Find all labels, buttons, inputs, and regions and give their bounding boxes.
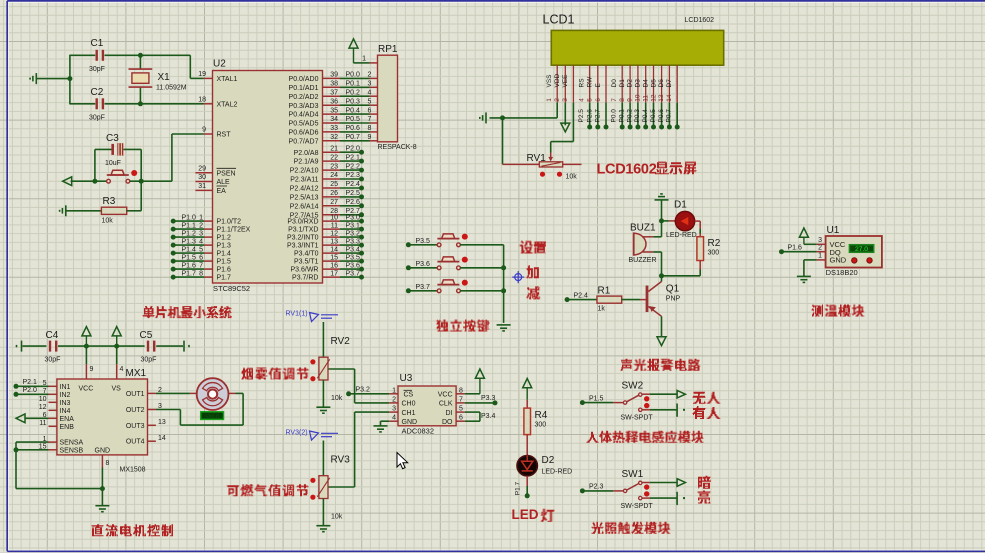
SENSA SENSB wires [16, 441, 49, 443]
svg-text:RV1: RV1 [527, 153, 547, 164]
svg-text:8: 8 [106, 460, 110, 467]
svg-text:VCC: VCC [438, 392, 453, 399]
MX1 VCC pin [85, 346, 87, 364]
svg-text:12: 12 [330, 230, 338, 237]
svg-text:IN1: IN1 [60, 384, 71, 391]
svg-text:P3.5: P3.5 [346, 254, 361, 261]
buzzer BUZ1 [634, 233, 646, 255]
label zhi-liu-dian-ji [91, 524, 104, 536]
wire [460, 267, 504, 269]
label sheng-guang-bao-jing [620, 359, 632, 371]
svg-text:9: 9 [202, 127, 206, 134]
resistor pack RP1 body [378, 55, 398, 142]
svg-text:9: 9 [90, 366, 94, 373]
svg-text:RV2: RV2 [331, 336, 351, 347]
svg-text:EA: EA [217, 188, 227, 195]
svg-text:11: 11 [642, 95, 649, 102]
svg-text:LED-RED: LED-RED [542, 469, 573, 476]
svg-text:X1: X1 [158, 72, 171, 83]
resistor R2 [697, 237, 704, 261]
svg-text:P2.0/A8: P2.0/A8 [294, 150, 319, 157]
svg-text:31: 31 [198, 183, 206, 190]
svg-text:VCC: VCC [79, 386, 94, 393]
svg-text:SW-SPDT: SW-SPDT [621, 503, 654, 510]
svg-text:21: 21 [330, 145, 338, 152]
svg-text:CH0: CH0 [402, 401, 416, 408]
svg-text:11.0592M: 11.0592M [156, 85, 187, 92]
capacitor C2 [96, 98, 98, 109]
LCD pin stubs [556, 65, 558, 102]
LCD VEE wire to RV1 wiper [572, 103, 574, 142]
RV1 terminal dots [540, 172, 545, 177]
ENA terminal arrow [16, 414, 25, 423]
LCD VSS wire to ground [556, 103, 558, 118]
svg-text:OUT2: OUT2 [126, 407, 145, 414]
svg-text:P3.1: P3.1 [346, 222, 361, 229]
origin marker [512, 271, 524, 283]
svg-text:2: 2 [554, 98, 561, 102]
svg-text:C1: C1 [91, 38, 104, 49]
svg-text:R4: R4 [535, 410, 548, 421]
svg-text:P0.1: P0.1 [346, 81, 361, 88]
ground [316, 526, 330, 532]
svg-text:P3.7/RD: P3.7/RD [292, 275, 318, 282]
svg-text:7: 7 [199, 263, 203, 270]
ground [797, 276, 811, 282]
svg-text:10k: 10k [331, 395, 343, 402]
ground left of crystal [30, 73, 36, 84]
svg-text:8: 8 [619, 98, 626, 102]
wire [117, 345, 145, 347]
svg-text:P3.3: P3.3 [346, 238, 361, 245]
svg-text:P0.6: P0.6 [346, 125, 361, 132]
svg-text:P3.6: P3.6 [416, 261, 431, 268]
ground [374, 426, 388, 432]
wire [699, 221, 701, 229]
svg-text:P0.0: P0.0 [346, 72, 361, 79]
svg-text:P0.7: P0.7 [666, 109, 673, 123]
svg-text:LCD1602: LCD1602 [597, 162, 657, 178]
svg-text:U2: U2 [213, 59, 226, 70]
svg-text:P2.4/A12: P2.4/A12 [290, 186, 319, 193]
svg-text:32: 32 [330, 134, 338, 141]
svg-text:VEE: VEE [562, 74, 569, 88]
svg-text:P2.1: P2.1 [346, 154, 361, 161]
wire [70, 103, 95, 105]
svg-text:P3.2/INT0: P3.2/INT0 [287, 235, 319, 242]
svg-text:U3: U3 [400, 373, 413, 384]
push button reset [111, 170, 124, 175]
wire [127, 210, 142, 212]
svg-text:P0.4: P0.4 [642, 109, 649, 123]
svg-text:P0.2: P0.2 [626, 109, 633, 123]
U3 GND to ground [381, 420, 390, 422]
wire to XTAL2 [105, 103, 204, 105]
wire RV2 wiper to CH0 [355, 402, 390, 404]
svg-text:P2.6/A14: P2.6/A14 [290, 203, 319, 210]
svg-text:P3.0/RXD: P3.0/RXD [287, 219, 318, 226]
svg-text:10: 10 [635, 94, 642, 102]
U3 left pin stubs [389, 393, 398, 395]
wire [622, 299, 640, 301]
svg-text:P2.1/A9: P2.1/A9 [294, 159, 319, 166]
svg-text:E: E [595, 83, 602, 88]
svg-text:BUZZER: BUZZER [629, 257, 657, 264]
MX1 left pins [49, 385, 57, 387]
svg-text:ADC0832: ADC0832 [402, 426, 435, 435]
U3 CLK wire and label P3.3 [465, 402, 495, 404]
svg-text:P1.3: P1.3 [182, 239, 197, 246]
svg-text:RV1(1): RV1(1) [286, 311, 308, 318]
svg-text:GND: GND [95, 448, 111, 455]
wire [526, 400, 528, 408]
svg-text:CS: CS [404, 392, 414, 399]
svg-text:IN2: IN2 [60, 392, 71, 399]
svg-text:10k: 10k [102, 218, 114, 225]
svg-text:P0.4/AD4: P0.4/AD4 [289, 112, 319, 119]
net dot and label P2.1 [14, 384, 19, 389]
svg-text:10k: 10k [566, 174, 578, 181]
label an [698, 476, 711, 489]
label dan-pian-ji [142, 306, 155, 318]
ground [95, 506, 109, 512]
svg-text:26: 26 [330, 190, 338, 197]
svg-text:P0.3: P0.3 [346, 98, 361, 105]
svg-text:RESPACK-8: RESPACK-8 [378, 144, 417, 151]
svg-text:C4: C4 [46, 330, 59, 341]
svg-text:R1: R1 [598, 285, 611, 296]
svg-text:D2: D2 [627, 79, 634, 88]
U3 VCC to power [465, 393, 480, 395]
svg-text:P0.3/AD3: P0.3/AD3 [289, 103, 319, 110]
svg-text:D6: D6 [658, 79, 665, 88]
svg-text:3: 3 [199, 231, 203, 238]
wire to XTAL1 [189, 55, 191, 78]
svg-text:P3.5: P3.5 [416, 238, 431, 245]
terminal [21, 341, 23, 352]
svg-text:LED: LED [512, 507, 539, 522]
svg-text:R3: R3 [103, 196, 116, 207]
resistor R1 [597, 296, 622, 303]
RP1 pin 1 wire [370, 62, 378, 64]
svg-text:RV3(2): RV3(2) [286, 430, 308, 437]
svg-text:IN4: IN4 [60, 408, 71, 415]
wire [460, 244, 504, 246]
potentiometer RV2 [319, 357, 328, 380]
svg-text:RST: RST [217, 132, 232, 139]
svg-text:C3: C3 [106, 133, 119, 144]
svg-text:10k: 10k [331, 514, 343, 521]
svg-text:VDD: VDD [554, 73, 561, 87]
svg-text:Q1: Q1 [666, 284, 680, 295]
terminal arrow right [677, 390, 685, 398]
U2 P2 pins with net labels [323, 151, 341, 153]
svg-text:D1: D1 [674, 200, 687, 211]
svg-text:P3.7: P3.7 [416, 284, 431, 291]
svg-text:GND: GND [402, 419, 418, 426]
svg-text:13: 13 [330, 238, 338, 245]
button bus wire [503, 245, 505, 323]
svg-text:14: 14 [666, 94, 673, 102]
svg-text:SENSA: SENSA [60, 440, 84, 447]
wire [156, 345, 183, 347]
ground left of R3 [60, 205, 66, 216]
svg-text:OUT4: OUT4 [126, 439, 145, 446]
svg-text:27.0: 27.0 [855, 246, 868, 253]
svg-text:P2.4: P2.4 [574, 292, 589, 299]
svg-text:10: 10 [330, 214, 338, 221]
U3 right pin stubs [456, 393, 465, 395]
svg-text:LCD1602: LCD1602 [685, 17, 715, 24]
svg-text:D0: D0 [611, 79, 618, 88]
svg-text:P0.6/AD6: P0.6/AD6 [289, 130, 319, 137]
svg-text:5: 5 [587, 98, 594, 102]
svg-text:4: 4 [120, 366, 124, 373]
label guang-zhao-mo-kuai [591, 522, 604, 534]
wire [105, 54, 191, 56]
net dot and label P2.3 [580, 488, 585, 493]
svg-text:4: 4 [199, 239, 203, 246]
svg-text:P0.2/AD2: P0.2/AD2 [289, 94, 319, 101]
svg-text:P1.2: P1.2 [217, 235, 232, 242]
svg-text:4: 4 [368, 89, 372, 96]
svg-text:P0.0: P0.0 [611, 109, 618, 123]
svg-text:D4: D4 [642, 79, 649, 88]
transistor Q1 [646, 286, 649, 313]
svg-text:BUZ1: BUZ1 [630, 223, 656, 234]
svg-text:30pF: 30pF [141, 357, 157, 364]
LED D1 [662, 220, 669, 222]
svg-text:2: 2 [199, 223, 203, 230]
U1 VCC pin to power [817, 243, 826, 245]
svg-text:5: 5 [199, 247, 203, 254]
svg-text:1: 1 [818, 253, 822, 260]
capacitor C1 [96, 50, 98, 61]
svg-text:CLK: CLK [439, 401, 453, 408]
DS18B20 U1 body [826, 236, 882, 268]
svg-text:P1.0/T2: P1.0/T2 [217, 219, 242, 226]
svg-text:OUT3: OUT3 [126, 423, 145, 430]
svg-text:+88.8: +88.8 [205, 414, 219, 420]
switch SW1 [623, 489, 626, 492]
svg-text:MX1508: MX1508 [120, 467, 146, 474]
svg-text:P3.0: P3.0 [346, 214, 361, 221]
wire [58, 345, 86, 347]
svg-text:P0.1/AD1: P0.1/AD1 [289, 85, 319, 92]
label jian [526, 286, 540, 299]
U1 indicator dots [852, 258, 857, 263]
svg-text:37: 37 [330, 89, 338, 96]
power arrow [523, 379, 532, 388]
junction [67, 76, 72, 81]
net dot and label P1.6 [779, 249, 784, 254]
U2 P1 pins, wires and net labels [204, 220, 213, 222]
svg-text:P1.5: P1.5 [217, 259, 232, 266]
svg-text:P2.2: P2.2 [346, 163, 361, 170]
terminal [183, 341, 185, 352]
svg-text:P1.6: P1.6 [182, 263, 197, 270]
svg-text:VS: VS [112, 386, 122, 393]
LCD screen body [551, 30, 723, 65]
wire [322, 499, 324, 526]
wire [86, 345, 116, 347]
svg-text:8: 8 [199, 271, 203, 278]
svg-text:C5: C5 [140, 330, 153, 341]
svg-text:P3.2: P3.2 [356, 386, 371, 393]
svg-text:24: 24 [330, 172, 338, 179]
svg-text:P2.0: P2.0 [23, 387, 38, 394]
label jia [526, 265, 539, 278]
svg-text:P2.5: P2.5 [346, 190, 361, 197]
svg-text:38: 38 [330, 81, 338, 88]
capacitor C5 [147, 341, 149, 352]
wire [94, 149, 96, 181]
net dot and label P3.5 [406, 242, 411, 247]
svg-text:SW-SPDT: SW-SPDT [621, 415, 654, 422]
svg-text:P0.7: P0.7 [346, 134, 361, 141]
svg-text:P0.5/AD5: P0.5/AD5 [289, 121, 319, 128]
net dot and label P2.0 [14, 392, 19, 397]
svg-text:P3.5/T1: P3.5/T1 [294, 259, 319, 266]
svg-text:P1.2: P1.2 [182, 231, 197, 238]
svg-text:P2.5/A13: P2.5/A13 [290, 195, 319, 202]
svg-text:P1.4: P1.4 [217, 251, 232, 258]
wire [661, 200, 663, 237]
svg-text:7: 7 [368, 116, 372, 123]
MX1 right pins [148, 392, 156, 394]
svg-text:14: 14 [330, 246, 338, 253]
svg-text:P3.6: P3.6 [346, 262, 361, 269]
terminal arrow right [677, 479, 685, 487]
svg-text:U1: U1 [827, 225, 840, 236]
svg-text:SW1: SW1 [622, 469, 644, 480]
svg-text:30pF: 30pF [45, 357, 61, 364]
svg-text:P3.1/TXD: P3.1/TXD [288, 227, 318, 234]
svg-text:RW: RW [587, 76, 594, 88]
svg-text:LCD1: LCD1 [543, 13, 575, 27]
wire OUT2 to motor [156, 409, 181, 411]
svg-text:P3.2: P3.2 [346, 230, 361, 237]
motor [197, 378, 229, 410]
svg-text:6: 6 [368, 107, 372, 114]
svg-text:1: 1 [199, 215, 203, 222]
svg-text:25: 25 [330, 181, 338, 188]
svg-text:2: 2 [818, 245, 822, 252]
svg-text:11: 11 [39, 420, 46, 427]
terminal bar [676, 492, 678, 505]
svg-text:P0.3: P0.3 [634, 109, 641, 123]
svg-text:33: 33 [330, 125, 338, 132]
svg-text:1k: 1k [598, 306, 606, 313]
wire [71, 180, 107, 182]
svg-text:7: 7 [611, 98, 618, 102]
svg-text:SENSB: SENSB [60, 447, 84, 454]
svg-text:5: 5 [368, 98, 372, 105]
svg-text:DS18B20: DS18B20 [826, 268, 858, 277]
svg-text:P1.1: P1.1 [182, 223, 197, 230]
MCU U2 body [213, 71, 323, 284]
svg-text:6: 6 [595, 98, 602, 102]
label you-ren [692, 406, 706, 419]
wire [642, 393, 650, 395]
crystal X1 [139, 55, 141, 69]
svg-text:300: 300 [535, 422, 547, 429]
reset terminal arrow [63, 177, 72, 186]
capacitor C3 [95, 148, 112, 150]
ground [497, 325, 511, 331]
power arrow RP1 [349, 39, 358, 48]
potentiometer RV3 [319, 476, 328, 499]
svg-text:3: 3 [368, 81, 372, 88]
svg-text:P1.5: P1.5 [589, 395, 604, 402]
svg-text:SW2: SW2 [622, 381, 644, 392]
svg-text:P0.6: P0.6 [658, 109, 665, 123]
svg-text:4: 4 [579, 98, 586, 102]
push button K1 [442, 234, 455, 239]
wire [699, 261, 701, 270]
push button K3 [442, 280, 455, 285]
svg-text:P0.1: P0.1 [619, 109, 626, 123]
svg-text:XTAL2: XTAL2 [217, 101, 238, 108]
svg-text:P2.5: P2.5 [578, 109, 585, 123]
svg-text:9: 9 [368, 134, 372, 141]
svg-text:LED-RED: LED-RED [666, 232, 697, 239]
LCD VDD power arrow down [564, 103, 566, 126]
U2 P3 pins with net labels [323, 220, 341, 222]
svg-text:1: 1 [546, 98, 553, 102]
svg-text:ENB: ENB [60, 424, 75, 431]
resistor R4 [524, 408, 531, 435]
svg-text:34: 34 [330, 116, 338, 123]
svg-text:P1.7: P1.7 [182, 271, 197, 278]
svg-text:23: 23 [330, 163, 338, 170]
label du-li-an-jian [436, 320, 449, 332]
svg-text:18: 18 [198, 96, 206, 103]
svg-text:P0.4: P0.4 [346, 107, 361, 114]
svg-text:2: 2 [368, 72, 372, 79]
svg-text:R2: R2 [708, 238, 721, 249]
label ren-ti-mo-kuai [586, 432, 599, 443]
svg-text:30pF: 30pF [89, 66, 105, 73]
svg-text:P0.0/AD0: P0.0/AD0 [289, 76, 319, 83]
svg-text:P1.7: P1.7 [217, 275, 232, 282]
svg-text:P1.1/T2EX: P1.1/T2EX [217, 227, 251, 234]
power arrow [82, 327, 91, 336]
svg-text:ENA: ENA [60, 416, 75, 423]
svg-text:D7: D7 [666, 79, 673, 88]
svg-text:39: 39 [330, 72, 338, 79]
svg-text:13: 13 [158, 419, 166, 426]
svg-text:P1.6: P1.6 [788, 245, 803, 252]
svg-text:DO: DO [442, 419, 453, 426]
svg-text:3: 3 [818, 237, 822, 244]
ground [480, 112, 486, 123]
svg-text:OUT1: OUT1 [126, 391, 145, 398]
label wu-ren [692, 392, 706, 404]
svg-text:P3.4/T0: P3.4/T0 [294, 251, 319, 258]
svg-text:P2.1: P2.1 [23, 379, 38, 386]
svg-text:P0.5: P0.5 [650, 109, 657, 123]
ground [316, 407, 330, 413]
U1 GND pin to ground [817, 259, 826, 261]
svg-text:VSS: VSS [546, 74, 553, 88]
svg-text:P3.6/WR: P3.6/WR [290, 267, 318, 274]
switch SW2 [623, 401, 626, 404]
svg-text:P3.3: P3.3 [481, 395, 496, 402]
svg-text:GND: GND [830, 256, 847, 265]
U3 DI-DO loop wire and label P3.4 [465, 411, 480, 413]
svg-text:15: 15 [330, 254, 338, 261]
